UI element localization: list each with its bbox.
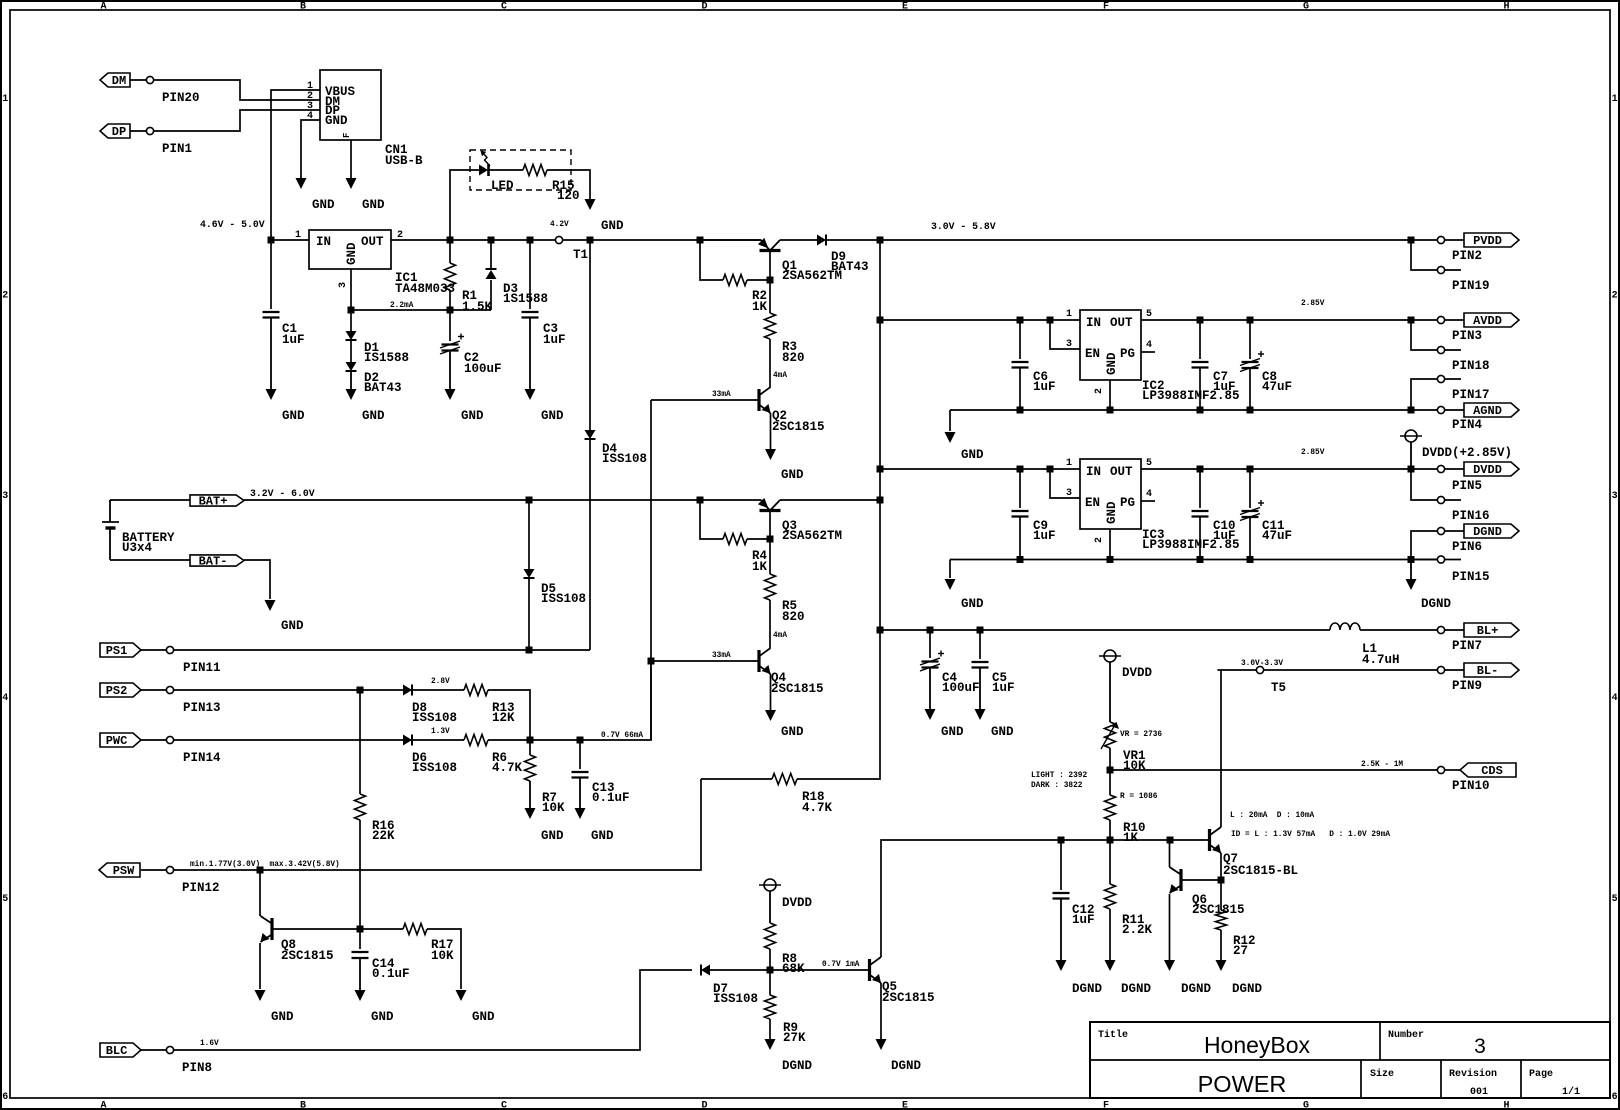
- junction out3 / C11: [1247, 466, 1254, 473]
- label page 1/1: [1562, 1086, 1580, 1098]
- svg-text:27: 27: [1233, 944, 1248, 958]
- wire D9 to PVDD rail: [826, 239, 1437, 241]
- number 3: [1474, 1035, 1486, 1058]
- label C2 refdes: [464, 351, 479, 365]
- svg-text:1K: 1K: [1123, 831, 1139, 845]
- svg-text:CDS: CDS: [1481, 764, 1503, 778]
- label voltage 2.85V (IC2): [1301, 300, 1325, 308]
- wire DP net: [154, 110, 320, 131]
- label Q8 value 2SC1815: [281, 949, 334, 963]
- svg-text:3: 3: [1612, 491, 1618, 502]
- battery U3x4 symbol: [102, 500, 119, 560]
- label C9 value 1uF: [1033, 529, 1056, 543]
- resistor R18 4.7K: [772, 774, 797, 785]
- wire DP to flag: [130, 130, 146, 132]
- ground GND at C3: [525, 318, 536, 401]
- junction bus / BAT+ rail: [877, 497, 884, 504]
- svg-text:4.7K: 4.7K: [802, 801, 833, 815]
- svg-text:LIGHT : 2392: LIGHT : 2392: [1031, 772, 1087, 780]
- svg-text:F: F: [342, 133, 352, 138]
- regulator IC1 TA48M033 body: [309, 230, 391, 269]
- svg-text:PIN14: PIN14: [183, 751, 221, 765]
- label R15 value 120: [557, 189, 580, 203]
- svg-text:GND: GND: [991, 725, 1014, 739]
- resistor R17 10K: [403, 924, 427, 935]
- wire R1 top: [449, 240, 451, 263]
- net flag PSW: [99, 863, 140, 878]
- svg-text:2.85V: 2.85V: [1301, 300, 1325, 308]
- junction rail / R10-R11: [1107, 837, 1114, 844]
- wire VR1 to R10: [1109, 748, 1111, 795]
- svg-text:PIN7: PIN7: [1452, 639, 1482, 653]
- label R11 refdes: [1122, 913, 1145, 927]
- resistor R1 1.5K: [445, 263, 456, 290]
- svg-text:2.2K: 2.2K: [1122, 923, 1153, 937]
- wire battery plus to BAT+ flag: [110, 499, 190, 501]
- wire Q2 emitter: [770, 413, 772, 449]
- capacitor C13: [572, 772, 589, 778]
- label PIN14: [183, 751, 221, 765]
- label IC2 value LP3988IMF2.85: [1142, 389, 1240, 403]
- junction IC1 GND / D1: [348, 307, 355, 314]
- svg-text:Page: Page: [1529, 1069, 1553, 1080]
- label net voltage 4.6V - 5.0V: [200, 219, 265, 230]
- ground GND at Q2: [765, 449, 776, 460]
- label C3 value 1uF: [543, 333, 566, 347]
- label C13 value 0.1uF: [592, 791, 630, 805]
- junction bus / IC2 row: [877, 317, 884, 324]
- capacitor C14: [352, 952, 369, 958]
- wire IC2 IN row: [880, 319, 1080, 321]
- svg-text:4.7uH: 4.7uH: [1362, 653, 1400, 667]
- label IC3 pin 2: [1094, 537, 1105, 543]
- svg-text:BAT43: BAT43: [364, 381, 402, 395]
- wire R7 top: [529, 740, 531, 755]
- svg-text:EN: EN: [1085, 347, 1100, 361]
- label IC2 refdes: [1142, 379, 1165, 393]
- label R7 refdes: [542, 791, 557, 805]
- svg-text:0.7V 66mA: 0.7V 66mA: [601, 732, 643, 740]
- svg-text:Number: Number: [1388, 1029, 1424, 1041]
- wire CN1 shield to ground: [350, 140, 352, 178]
- svg-text:1.3V: 1.3V: [431, 728, 450, 736]
- svg-text:1uF: 1uF: [282, 333, 305, 347]
- wire AVDD circle to flag: [1445, 319, 1464, 321]
- wire PIN19 branch: [1411, 240, 1437, 270]
- wire C8 bottom: [1249, 368, 1251, 410]
- diode D2 BAT43: [346, 362, 357, 371]
- pin circle PIN17: [1437, 375, 1444, 382]
- net flag AGND: [1464, 403, 1519, 418]
- svg-text:DGND: DGND: [891, 1059, 922, 1073]
- junction out3 / DVDD branch: [1408, 466, 1415, 473]
- junction gnd3 / C9: [1017, 556, 1024, 563]
- label CN1 pin 1: [307, 81, 313, 92]
- junction BAT+ rail / D5: [526, 497, 533, 504]
- junction Q6 base / Q7 emitter / R12: [1218, 877, 1225, 884]
- svg-text:PIN11: PIN11: [183, 661, 221, 675]
- diode D3 1S1588: [486, 269, 497, 279]
- label R12 value 27: [1233, 944, 1248, 958]
- wire C5 top: [979, 630, 981, 659]
- label Q8 refdes: [281, 938, 296, 952]
- wire BAT- to ground: [244, 560, 270, 599]
- svg-text:BL-: BL-: [1477, 664, 1499, 678]
- junction base drive / Q4 base: [648, 658, 655, 665]
- svg-text:ISS108: ISS108: [541, 592, 586, 606]
- label net voltage 3.2V - 6.0V: [250, 488, 315, 499]
- label GND for ground GND at C14: [371, 1010, 394, 1024]
- label R2 value 1K: [752, 300, 768, 314]
- label net voltage 3.0V - 5.8V: [931, 221, 996, 232]
- label CN1 value USB-B: [385, 154, 423, 168]
- title HoneyBox: [1204, 1032, 1311, 1058]
- ground DGND at C12: [1056, 899, 1067, 972]
- wire R8 bottom: [769, 949, 771, 970]
- ground GND at C14: [355, 958, 366, 1001]
- label C14 value 0.1uF: [372, 967, 410, 981]
- label GND for ground GND at Q8: [271, 1010, 294, 1024]
- svg-text:22K: 22K: [372, 829, 395, 843]
- label PIN7: [1452, 639, 1482, 653]
- label C1 value 1uF: [282, 333, 305, 347]
- wire DM to CN1 pin2: [130, 79, 146, 81]
- resistor R4 1K: [723, 534, 747, 545]
- wire D1 to D2: [350, 340, 352, 362]
- capacitor C2 electrolytic: [440, 334, 464, 355]
- svg-text:GND: GND: [601, 219, 624, 233]
- resistor R16 22K: [355, 794, 366, 820]
- label R3 refdes: [782, 340, 797, 354]
- svg-text:GND: GND: [362, 409, 385, 423]
- junction row / EN: [1047, 317, 1054, 324]
- ground GND at IC3: [945, 579, 956, 590]
- svg-text:GND: GND: [362, 198, 385, 212]
- pin circle PIN3: [1437, 316, 1444, 323]
- svg-text:GND: GND: [591, 829, 614, 843]
- wire IC1 GND pin net: [351, 269, 491, 310]
- wire battery minus to BAT- flag: [110, 559, 190, 561]
- svg-text:10K: 10K: [1123, 759, 1146, 773]
- svg-text:1K: 1K: [752, 300, 768, 314]
- label IC3 pin 5: [1146, 458, 1152, 469]
- label GND for ground GND at IC3: [961, 597, 984, 611]
- svg-text:BAT43: BAT43: [831, 260, 869, 274]
- wire BL+ circle to flag: [1445, 629, 1464, 631]
- wire PIN18 stub2: [1445, 349, 1461, 351]
- pin circle PIN9: [1437, 666, 1444, 673]
- label PIN8: [182, 1061, 212, 1075]
- resistor R12 27: [1216, 910, 1227, 930]
- junction out / C8: [1247, 317, 1254, 324]
- label IC3 pin 3: [1066, 488, 1072, 499]
- svg-text:ID = L : 1.3V 57mA D : 1.0V: ID = L : 1.3V 57mA D : 1.0V 29mA: [1231, 831, 1390, 839]
- ground GND at CN1 shield: [346, 178, 357, 189]
- pin circle PIN13: [166, 686, 173, 693]
- wire Q4 base line: [651, 660, 758, 662]
- svg-text:5: 5: [1146, 458, 1152, 469]
- svg-text:GND: GND: [1105, 501, 1119, 524]
- svg-text:DP: DP: [112, 125, 126, 139]
- junction gnd3 / C11: [1247, 556, 1254, 563]
- ground GND at C13: [575, 778, 586, 820]
- label GND for ground GND at C4: [941, 725, 964, 739]
- label C2 value 100uF: [464, 362, 502, 376]
- label current 0.7V 1mA: [822, 961, 860, 969]
- wire Q7 emitter to R12: [1220, 853, 1222, 880]
- svg-text:DVDD: DVDD: [1473, 463, 1502, 477]
- diode D6 ISS108: [403, 735, 412, 746]
- junction row3 / C9: [1017, 466, 1024, 473]
- label C11 refdes: [1262, 519, 1285, 533]
- label T5: [1271, 681, 1286, 695]
- svg-text:PIN3: PIN3: [1452, 329, 1482, 343]
- label DARK : 3822: [1031, 782, 1083, 790]
- label PIN19: [1452, 279, 1490, 293]
- label C13 refdes: [592, 781, 615, 795]
- label limits min.1.77V(3.0V) max.3.42V(5.8V): [190, 861, 340, 869]
- transistor Q1 2SA562TM: [758, 238, 781, 251]
- wire R6 to node: [488, 661, 651, 740]
- wire R15 to ground: [547, 170, 590, 199]
- label DGND for ground DGND at R12: [1232, 982, 1263, 996]
- power symbol DVDD (VR1): [1099, 650, 1121, 722]
- diode D1 IS1588: [346, 331, 357, 340]
- wire AGND circle to flag: [1445, 409, 1464, 411]
- label R9 refdes: [783, 1021, 798, 1035]
- transistor Q8 2SC1815: [261, 916, 273, 942]
- svg-text:2.85V: 2.85V: [1301, 449, 1325, 457]
- svg-text:GND: GND: [325, 114, 348, 128]
- svg-text:2SA562TM: 2SA562TM: [782, 529, 842, 543]
- svg-text:GND: GND: [1105, 352, 1119, 375]
- transistor Q2 2SC1815: [759, 387, 771, 413]
- junction out / C7: [1197, 317, 1204, 324]
- wire base drive net Q2-Q4: [650, 400, 652, 740]
- junction rail / Q6 collector: [1167, 837, 1174, 844]
- pin circle PIN1: [146, 127, 153, 134]
- wire R2 branch: [700, 240, 723, 280]
- junction Q8 base / R16 / C14 / R17: [357, 926, 364, 933]
- svg-text:DGND: DGND: [1421, 597, 1452, 611]
- svg-text:1uF: 1uF: [1213, 529, 1236, 543]
- wire R3 top: [769, 280, 771, 313]
- svg-text:H: H: [1503, 1100, 1509, 1110]
- label R11 value 2.2K: [1122, 923, 1153, 937]
- svg-text:1uF: 1uF: [1033, 380, 1056, 394]
- svg-text:PSW: PSW: [113, 864, 135, 878]
- wire IC2 OUT row: [1141, 319, 1437, 321]
- label IC2 pin 5: [1146, 309, 1152, 320]
- label voltage 0.7V 66mA: [601, 732, 643, 740]
- svg-text:GND: GND: [345, 242, 359, 265]
- svg-text:47uF: 47uF: [1262, 380, 1292, 394]
- junction out3 / C10: [1197, 466, 1204, 473]
- label C12 value 1uF: [1072, 913, 1095, 927]
- wire R13 to PWC node: [488, 690, 530, 740]
- capacitor C7: [1192, 362, 1209, 368]
- label GND for ground GND at C5: [991, 725, 1014, 739]
- svg-text:IS1588: IS1588: [364, 351, 409, 365]
- svg-text:GND: GND: [271, 1010, 294, 1024]
- label C14 refdes: [372, 957, 395, 971]
- net flag DM: [100, 73, 130, 88]
- svg-text:DGND: DGND: [1121, 982, 1152, 996]
- wire Q4 emitter: [770, 674, 772, 710]
- wire C10: [1199, 469, 1201, 508]
- test point T5: [1256, 666, 1263, 673]
- wire LED branch up: [450, 170, 479, 240]
- pin circle PIN10: [1437, 766, 1444, 773]
- resistor R8 68K: [765, 923, 776, 949]
- label DGND for ground DGND at pin row: [1421, 597, 1452, 611]
- wire Q6 collector: [1169, 840, 1171, 867]
- junction gnd / AGND branch: [1408, 407, 1415, 414]
- wire BAT+ rail: [244, 499, 761, 501]
- wire R16 bottom: [359, 820, 361, 929]
- net flag DGND: [1464, 524, 1519, 539]
- svg-text:5: 5: [1146, 309, 1152, 320]
- label D4 refdes: [602, 442, 618, 456]
- label R15 refdes: [552, 179, 575, 193]
- svg-text:3: 3: [1066, 488, 1072, 499]
- label D8 value ISS108: [412, 711, 457, 725]
- wire R18 to bus: [797, 630, 880, 779]
- svg-text:1.6V: 1.6V: [200, 1040, 219, 1048]
- capacitor C5: [972, 662, 989, 668]
- wire PIN18 branch: [1411, 320, 1437, 350]
- wire R11 top: [1109, 840, 1111, 884]
- photoresistor VR1 arrow: [1101, 722, 1119, 749]
- wire C3 top: [529, 240, 531, 309]
- svg-text:AGND: AGND: [1473, 404, 1502, 418]
- svg-text:1uF: 1uF: [1033, 529, 1056, 543]
- label Title: [1098, 1029, 1128, 1041]
- wire Q3 collector to bus: [780, 499, 880, 501]
- label D2 value BAT43: [364, 381, 402, 395]
- junction BL+ row / C5: [977, 627, 984, 634]
- label current 2.2mA: [390, 302, 414, 310]
- diode D5 ISS108: [524, 569, 535, 578]
- label LED: [491, 179, 514, 193]
- wire DGND circle to flag: [1445, 530, 1464, 532]
- capacitor C3: [522, 312, 539, 318]
- label IC3 value LP3988IMF2.85: [1142, 538, 1240, 552]
- label C4 refdes: [942, 671, 958, 685]
- svg-text:10K: 10K: [542, 801, 565, 815]
- svg-text:PIN18: PIN18: [1452, 359, 1490, 373]
- pin circle PIN7: [1437, 626, 1444, 633]
- label C7 refdes: [1213, 370, 1228, 384]
- pin circle PIN11: [166, 646, 173, 653]
- wire Q1 base stem: [769, 251, 771, 280]
- LED dashed callout box: [470, 150, 571, 190]
- svg-text:4: 4: [1146, 489, 1152, 500]
- svg-text:Title: Title: [1098, 1029, 1128, 1041]
- wire D8 to R13: [412, 689, 464, 691]
- svg-text:3: 3: [338, 282, 349, 288]
- svg-text:GND: GND: [781, 468, 804, 482]
- svg-text:GND: GND: [472, 1010, 495, 1024]
- capacitor C12: [1053, 893, 1070, 899]
- wire Q5 emitter: [880, 983, 882, 1039]
- wire LED to R15: [489, 169, 524, 171]
- label DGND for ground DGND at Q5: [891, 1059, 922, 1073]
- svg-text:820: 820: [782, 610, 805, 624]
- junction row / C6: [1017, 317, 1024, 324]
- label R9 value 27K: [783, 1031, 806, 1045]
- wire R9 bottom: [769, 1019, 771, 1039]
- svg-text:DGND: DGND: [1072, 982, 1103, 996]
- junction rail / R2 branch: [697, 237, 704, 244]
- wire VBUS pin1 to rail: [271, 90, 320, 240]
- label R17 refdes: [431, 938, 454, 952]
- wire C11: [1249, 469, 1251, 508]
- junction node / R13: [527, 737, 534, 744]
- title POWER: [1198, 1071, 1287, 1097]
- svg-text:Size: Size: [1370, 1068, 1394, 1080]
- net flag CDS: [1460, 763, 1516, 778]
- label Q3 value 2SA562TM: [782, 529, 842, 543]
- junction PS2 / R16: [357, 687, 364, 694]
- label current 4mA (Q2): [773, 372, 787, 380]
- junction R8 / R9 / D7: [767, 967, 774, 974]
- wire PS2 to circle: [141, 689, 166, 691]
- label R5 refdes: [782, 599, 797, 613]
- label R16 refdes: [372, 819, 395, 833]
- wire PIN16 stub2: [1445, 499, 1461, 501]
- label VR = 2736: [1120, 731, 1162, 739]
- label DGND for ground DGND at C12: [1072, 982, 1103, 996]
- wire R5 top: [769, 539, 771, 574]
- wire PIN15 stub: [1411, 559, 1437, 561]
- connector CN1 USB-B body: [320, 70, 381, 140]
- label IC1 pin 1: [295, 230, 301, 241]
- label GND for ground GND at C13: [591, 829, 614, 843]
- svg-text:GND: GND: [461, 409, 484, 423]
- svg-text:6: 6: [1612, 1092, 1618, 1103]
- label PIN20: [162, 91, 200, 105]
- label revision 001: [1470, 1087, 1488, 1098]
- label C10 value 1uF: [1213, 529, 1236, 543]
- pin circle PIN20: [146, 76, 153, 83]
- power symbol DVDD (output): [1400, 430, 1422, 469]
- svg-text:BL+: BL+: [1477, 624, 1499, 638]
- pin circle PIN6: [1437, 527, 1444, 534]
- pin circle PIN15: [1437, 556, 1444, 563]
- label CN1 pin 4: [307, 111, 313, 122]
- wire C9 bottom: [1019, 517, 1021, 560]
- resistor R11 2.2K: [1105, 884, 1116, 909]
- wire IC3 ground row: [950, 559, 1437, 561]
- svg-text:ISS108: ISS108: [412, 711, 457, 725]
- svg-text:GND: GND: [281, 619, 304, 633]
- label R18 value 4.7K: [802, 801, 833, 815]
- label D1 value IS1588: [364, 351, 409, 365]
- wire BLC line: [174, 970, 692, 1050]
- svg-text:H: H: [1503, 2, 1509, 13]
- label R12 refdes: [1233, 934, 1256, 948]
- junction gnd3 / IC3 pin2: [1107, 556, 1114, 563]
- svg-text:IN: IN: [1086, 316, 1101, 330]
- wire BL- left: [1218, 669, 1257, 671]
- label Page: [1529, 1069, 1553, 1080]
- label C3 refdes: [543, 322, 558, 336]
- label D7 value ISS108: [713, 992, 758, 1006]
- transistor Q6 2SC1815: [1170, 867, 1182, 893]
- label R = 1086: [1120, 793, 1158, 801]
- diode D4 ISS108: [585, 430, 596, 439]
